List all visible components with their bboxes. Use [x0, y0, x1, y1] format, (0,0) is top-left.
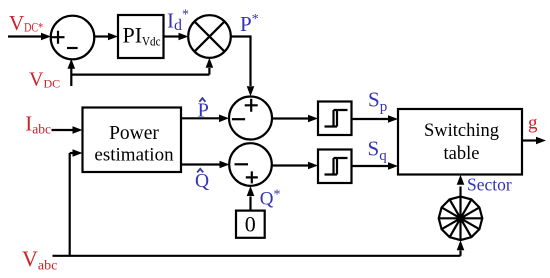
wire S1 to PI	[94, 35, 110, 37]
wire Vabc to sector wheel	[459, 251, 461, 256]
summing junction S3	[229, 143, 272, 186]
summing junction S1	[51, 16, 95, 60]
wire multiplier to corner	[231, 37, 251, 87]
svg-text:estimation: estimation	[94, 145, 174, 166]
wire Phat to S2	[181, 117, 220, 119]
wire Iabc input	[52, 129, 75, 131]
summing junction S2	[229, 97, 272, 140]
wire Vdc feedback horizontal	[71, 73, 209, 75]
block switching table	[398, 109, 522, 175]
multiplier M1	[188, 15, 231, 58]
svg-text:0: 0	[245, 212, 256, 237]
hysteresis comparator Hq	[318, 150, 352, 184]
wire Hq to switching table	[352, 165, 390, 167]
wire Hp to switching table	[352, 118, 390, 120]
svg-text:Vdc: Vdc	[142, 35, 161, 49]
svg-text:Switching: Switching	[424, 121, 499, 141]
svg-text:Power: Power	[109, 123, 159, 144]
svg-text:PI: PI	[123, 23, 143, 48]
block zero reference	[236, 211, 265, 238]
wire Vdc feedback stub	[70, 68, 72, 86]
wire Qhat to S3	[181, 163, 221, 165]
wire S3 to hysteresis Hq	[272, 164, 310, 166]
wire Vdc feedback to multiplier	[208, 68, 210, 75]
svg-text:table: table	[444, 144, 480, 164]
block power estimation	[83, 108, 182, 173]
wire Vdc* input	[8, 35, 42, 37]
wire PI to multiplier	[164, 35, 180, 37]
wire S2 to hysteresis Hp	[272, 117, 310, 119]
wire Vabc branch to power estimation	[69, 153, 71, 256]
svg-text:g: g	[528, 113, 538, 134]
wire g output	[522, 139, 537, 141]
hysteresis comparator Hp	[318, 102, 352, 136]
block PI_Vdc	[118, 15, 164, 58]
sector wheel	[439, 197, 483, 241]
svg-text:Sector: Sector	[467, 175, 512, 195]
wire sector wheel to switching table	[459, 187, 461, 197]
wire zero block to S3	[249, 197, 251, 211]
svg-text:Q: Q	[195, 171, 209, 192]
wire Vabc bottom rail	[53, 255, 461, 257]
